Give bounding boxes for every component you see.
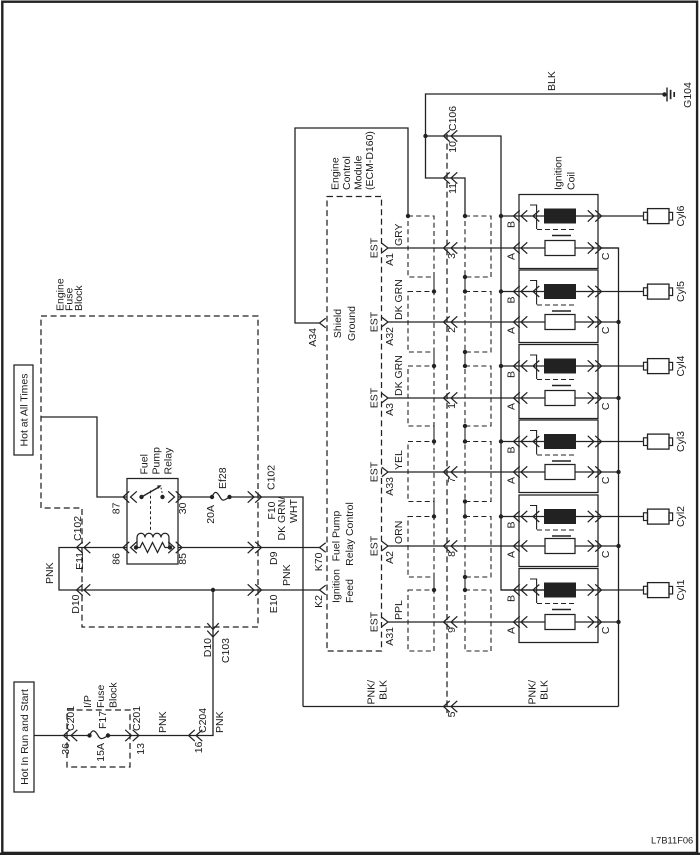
wire PNK feed Hot at All Times to relay pin 87	[41, 417, 127, 497]
wire EST DK GRN from ECM A32 to ignition coil A (cyl 5)	[388, 321, 545, 323]
svg-text:GRY: GRY	[393, 223, 405, 246]
junction dots coil B feed	[499, 214, 503, 218]
svg-text:13: 13	[135, 743, 147, 755]
wire EST ORN from ECM A2 to ignition coil A (cyl 2)	[388, 545, 545, 547]
svg-text:86: 86	[111, 553, 123, 565]
svg-text:A: A	[506, 403, 518, 410]
connector C106 pin 2	[444, 316, 459, 333]
svg-text:B: B	[506, 297, 518, 304]
svg-text:BLK: BLK	[378, 680, 390, 700]
svg-text:A32: A32	[384, 327, 396, 346]
svg-text:A1: A1	[384, 253, 396, 266]
node Hot In Run and Start	[14, 682, 34, 792]
label BLK	[546, 71, 558, 91]
label PNK/BLK (right)	[527, 680, 551, 705]
spark plug Cyl1	[644, 579, 688, 600]
wire PNK C102 E11 to relay 86 and D10 row to ECM K2	[59, 548, 320, 591]
svg-text:A2: A2	[384, 551, 396, 564]
ignition coil unit cylinder 2	[499, 495, 644, 567]
svg-text:PNK/: PNK/	[527, 680, 539, 705]
svg-text:A34: A34	[307, 328, 319, 347]
svg-text:16: 16	[193, 741, 205, 753]
svg-text:Feed: Feed	[344, 579, 356, 603]
wire PNK fuse F17 through C201 C204 up through C103 to splice	[108, 590, 213, 736]
svg-text:Fuel: Fuel	[139, 454, 151, 474]
svg-text:Block: Block	[73, 285, 85, 311]
svg-text:C106: C106	[447, 106, 459, 131]
svg-text:11: 11	[447, 183, 459, 194]
svg-text:WHT: WHT	[288, 499, 300, 523]
svg-text:Relay Control: Relay Control	[344, 502, 356, 566]
spark plug Cyl6	[644, 205, 688, 226]
svg-text:DK GRN: DK GRN	[393, 279, 405, 320]
wire relay pin 30 to fuse Ef28	[178, 496, 212, 498]
svg-text:PNK: PNK	[281, 564, 293, 586]
label wire colour PPL	[393, 600, 405, 620]
svg-text:Cyl4: Cyl4	[675, 355, 687, 376]
svg-text:30: 30	[177, 502, 189, 514]
connector C106 pin 11	[444, 172, 460, 194]
spark plug Cyl5	[644, 281, 688, 302]
wire Hot In Run and Start to fuse F17	[34, 735, 90, 737]
svg-text:A31: A31	[384, 627, 396, 646]
connector C204 pin 16	[189, 708, 210, 753]
svg-text:K2: K2	[313, 595, 325, 608]
node Hot at All Times	[14, 365, 33, 455]
svg-text:Ignition: Ignition	[331, 569, 343, 603]
ECM pin A34 Shield Ground	[307, 306, 358, 347]
svg-text:1: 1	[446, 403, 458, 409]
svg-text:C204: C204	[197, 708, 209, 733]
svg-text:Engine: Engine	[330, 157, 342, 190]
connector C102 (left) label	[72, 516, 84, 541]
ground G104	[662, 82, 694, 108]
wire EST GRY from ECM A1 to ignition coil A (cyl 6)	[388, 247, 545, 249]
ignition coil unit cylinder 6	[501, 195, 644, 269]
svg-text:Relay: Relay	[163, 447, 175, 475]
svg-text:A3: A3	[384, 403, 396, 416]
relay coil with parallel resistor (86-85)	[134, 533, 172, 552]
svg-text:Module: Module	[353, 155, 365, 190]
svg-text:C102: C102	[266, 465, 278, 490]
svg-text:F17: F17	[97, 711, 109, 729]
svg-text:A33: A33	[384, 477, 396, 496]
ignition coil unit cylinder 4	[499, 345, 644, 419]
wire EST DK GRN from ECM A3 to ignition coil A (cyl 4)	[388, 397, 545, 399]
wire BLK to G104 with drops to C106 pins 10 and 11	[423, 94, 664, 216]
connector C106 label	[447, 106, 459, 131]
label PNK between C201 and C204	[157, 711, 169, 733]
svg-text:C: C	[600, 476, 612, 484]
connector C106 line (dashed)	[446, 134, 448, 713]
svg-text:I/P: I/P	[82, 695, 94, 708]
svg-text:PNK: PNK	[44, 562, 56, 584]
ECM pin A1 EST output	[369, 237, 397, 266]
svg-text:PPL: PPL	[393, 600, 405, 620]
ECM pin A32 EST output	[369, 311, 397, 345]
shield (ECM side) dashed boxes chained to A34 shield ground	[406, 214, 436, 651]
connector C102 pin F10	[248, 491, 278, 519]
ECM pin A3 EST output	[369, 387, 397, 416]
svg-text:E11: E11	[74, 552, 86, 570]
label PNK ignition feed	[281, 564, 293, 586]
svg-text:C103: C103	[220, 638, 232, 663]
svg-text:(ECM-D160): (ECM-D160)	[364, 131, 376, 190]
svg-text:D10: D10	[202, 638, 214, 657]
label figure id L7B11F06	[651, 836, 693, 846]
svg-text:2: 2	[446, 327, 458, 333]
ECM pin A31 EST output	[369, 611, 397, 645]
label wire colour ORN	[393, 521, 405, 544]
connector C201 pin 13	[125, 706, 147, 755]
svg-text:B: B	[506, 522, 518, 529]
svg-text:Cyl6: Cyl6	[675, 205, 687, 226]
svg-text:BLK: BLK	[539, 680, 551, 700]
svg-text:Cyl5: Cyl5	[675, 281, 687, 302]
svg-text:85: 85	[177, 553, 189, 565]
svg-text:Hot at All Times: Hot at All Times	[19, 374, 31, 447]
label I/P Fuse Block	[82, 682, 120, 708]
svg-text:D9: D9	[268, 551, 280, 565]
ECM pin K2 Ignition Feed	[313, 569, 356, 608]
svg-text:DK GRN: DK GRN	[393, 355, 405, 396]
wire shield ground A34 to shield chain	[295, 128, 408, 323]
svg-text:Cyl2: Cyl2	[675, 506, 687, 527]
fuse F17 15A	[87, 711, 110, 762]
label Engine Control Module (ECM-D160)	[330, 131, 377, 190]
relay K: Fuel Pump Relay box	[127, 479, 178, 565]
svg-text:C: C	[600, 626, 612, 634]
connector C102 pin D10	[70, 584, 90, 613]
relay switch contact 87-30	[139, 485, 164, 530]
svg-text:Fuel Pump: Fuel Pump	[331, 510, 343, 561]
svg-text:Ef28: Ef28	[217, 467, 229, 489]
svg-text:C102: C102	[72, 516, 84, 541]
ignition coil unit cylinder 5	[499, 270, 644, 343]
svg-text:B: B	[506, 371, 518, 378]
wire DK GRN/WHT fuse Ef28 through C102 F10 down to splice rail	[230, 497, 304, 707]
label Fuel Pump Relay	[139, 447, 175, 475]
relay pin 85	[168, 542, 189, 565]
ignition coil unit cylinder 1	[501, 569, 644, 643]
label wire colour GRY	[393, 223, 405, 246]
svg-text:8: 8	[446, 551, 458, 557]
svg-text:20A: 20A	[205, 505, 217, 524]
svg-text:Ignition: Ignition	[553, 156, 565, 190]
label wire colour YEL	[393, 450, 405, 470]
svg-text:Pump: Pump	[151, 447, 163, 475]
svg-text:EST: EST	[369, 311, 381, 332]
fuse Ef28 20A	[205, 467, 232, 523]
relay pin 30	[168, 491, 189, 514]
svg-text:L7B11F06: L7B11F06	[651, 836, 693, 846]
svg-text:10: 10	[447, 141, 459, 153]
svg-text:ORN: ORN	[393, 521, 405, 544]
svg-text:Coil: Coil	[566, 172, 578, 190]
spark plug Cyl3	[644, 431, 688, 452]
connector C201 pin 36	[60, 706, 77, 755]
label wire colour DK GRN	[393, 355, 405, 396]
svg-text:15A: 15A	[95, 743, 107, 762]
ECM box (dashed)	[327, 197, 382, 652]
svg-text:PNK: PNK	[214, 711, 226, 733]
wire secondary return rail to coil C terminals	[601, 248, 619, 707]
fuse block Engine Fuse Block (dashed outline)	[41, 316, 258, 627]
svg-text:A: A	[506, 253, 518, 260]
connector C106 pin 9	[444, 616, 459, 633]
wire coil supply from C106 pin 10 to coil B terminals	[426, 136, 545, 590]
connector C106 pin 7	[444, 466, 459, 483]
svg-text:B: B	[506, 595, 518, 602]
svg-text:Ground: Ground	[346, 306, 358, 341]
svg-text:9: 9	[446, 627, 458, 633]
wire EST YEL from ECM A33 to ignition coil A (cyl 3)	[388, 471, 545, 473]
svg-text:C: C	[600, 550, 612, 558]
label PNK/BLK (left)	[366, 680, 390, 705]
svg-text:7: 7	[446, 477, 458, 483]
svg-text:Cyl3: Cyl3	[675, 431, 687, 452]
ECM pin A33 EST output	[369, 461, 397, 495]
svg-text:EST: EST	[369, 611, 381, 632]
svg-text:F10: F10	[266, 501, 278, 519]
svg-text:EST: EST	[369, 461, 381, 482]
connector C102 pin E10	[248, 584, 280, 613]
svg-text:A: A	[506, 327, 518, 334]
svg-text:D10: D10	[70, 594, 82, 613]
svg-text:C: C	[600, 402, 612, 410]
relay pin 87	[111, 491, 137, 514]
svg-text:Fuse: Fuse	[95, 684, 107, 708]
svg-text:3: 3	[446, 253, 458, 259]
svg-text:YEL: YEL	[393, 450, 405, 470]
connector C102 pin E11	[74, 542, 90, 570]
wire EST PPL from ECM A31 to ignition coil A (cyl 1)	[388, 621, 545, 623]
wire PNK/BLK splice rail through C106 pin 5	[303, 706, 619, 708]
svg-text:B: B	[506, 447, 518, 454]
shield (coil side) dashed boxes chained to C106 pin 11	[463, 214, 491, 651]
svg-text:E10: E10	[268, 594, 280, 613]
junction splice PNK at E10 row	[211, 588, 215, 592]
svg-text:PNK: PNK	[157, 711, 169, 733]
svg-text:EST: EST	[369, 387, 381, 408]
svg-text:A: A	[506, 627, 518, 634]
wire DK GRN/WHT relay 85 to C102 D9 to ECM K70	[178, 547, 320, 549]
svg-text:C: C	[600, 326, 612, 334]
connector C102 (right) label	[266, 465, 278, 490]
label Engine Fuse Block	[55, 278, 86, 311]
connector C106 pin 10	[444, 130, 460, 152]
connector C106 pin 5	[444, 701, 459, 718]
ignition coil unit cylinder 3	[499, 420, 644, 493]
label wire colour DK GRN	[393, 279, 405, 320]
svg-text:EST: EST	[369, 237, 381, 258]
svg-text:36: 36	[60, 743, 72, 755]
connector C106 pin 3	[444, 242, 459, 259]
svg-text:C201: C201	[131, 706, 143, 731]
svg-text:Control: Control	[341, 156, 353, 190]
svg-text:K70: K70	[313, 552, 325, 571]
fuse block I/P Fuse Block (dashed box)	[67, 710, 130, 767]
svg-text:Shield: Shield	[332, 309, 344, 338]
connector C103 pin D10	[202, 623, 232, 663]
svg-text:BLK: BLK	[546, 71, 558, 91]
svg-text:Cyl1: Cyl1	[675, 579, 687, 600]
svg-text:A: A	[506, 551, 518, 558]
svg-text:Hot In Run and Start: Hot In Run and Start	[19, 689, 31, 785]
connector C102 pin D9	[248, 542, 280, 565]
label PNK left of C102	[44, 562, 56, 584]
svg-text:87: 87	[111, 502, 123, 514]
svg-text:C: C	[600, 252, 612, 260]
svg-text:Block: Block	[108, 682, 120, 708]
svg-text:PNK/: PNK/	[366, 680, 378, 705]
ECM pin A2 EST output	[369, 535, 397, 564]
spark plug Cyl2	[644, 506, 688, 527]
ECM pin K70 Fuel Pump Relay Control	[313, 502, 356, 571]
svg-text:G104: G104	[682, 82, 694, 108]
svg-text:B: B	[506, 221, 518, 228]
connector C106 pin 1	[444, 392, 459, 409]
svg-text:5: 5	[446, 711, 458, 717]
connector C106 pin 8	[444, 540, 459, 557]
label PNK above C103	[214, 711, 226, 733]
relay pin 86	[111, 542, 137, 565]
svg-text:C201: C201	[65, 706, 77, 731]
label DK GRN/WHT	[276, 497, 300, 541]
svg-text:A: A	[506, 477, 518, 484]
label Ignition Coil	[553, 156, 578, 190]
spark plug Cyl4	[644, 355, 688, 376]
svg-text:EST: EST	[369, 535, 381, 556]
